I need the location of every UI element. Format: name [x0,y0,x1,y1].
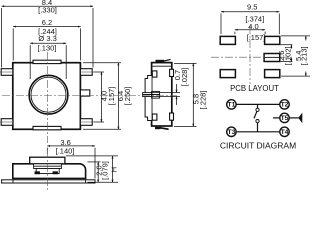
svg-text:T5: T5 [281,115,289,122]
svg-text:H: H [110,167,119,172]
svg-text:[.330]: [.330] [38,6,57,15]
svg-text:T1: T1 [227,102,235,109]
svg-text:[.228]: [.228] [198,91,207,110]
svg-text:T2: T2 [281,102,289,109]
svg-text:CIRCUIT DIAGRAM: CIRCUIT DIAGRAM [220,141,296,151]
svg-text:T4: T4 [281,129,289,136]
svg-text:Ø 3.3: Ø 3.3 [38,34,56,43]
svg-text:T3: T3 [227,129,235,136]
svg-text:[.102]: [.102] [284,46,293,65]
svg-text:[.130]: [.130] [38,43,57,52]
svg-text:[.140]: [.140] [56,147,75,156]
svg-text:[.213]: [.213] [300,46,309,65]
svg-text:[.028]: [.028] [180,68,189,87]
svg-text:[.079]: [.079] [101,161,110,180]
svg-text:9.5: 9.5 [247,2,257,11]
svg-text:[.157]: [.157] [247,33,266,42]
svg-text:[.157]: [.157] [107,87,116,106]
svg-text:PCB LAYOUT: PCB LAYOUT [230,84,279,93]
svg-text:[.250]: [.250] [123,87,132,106]
